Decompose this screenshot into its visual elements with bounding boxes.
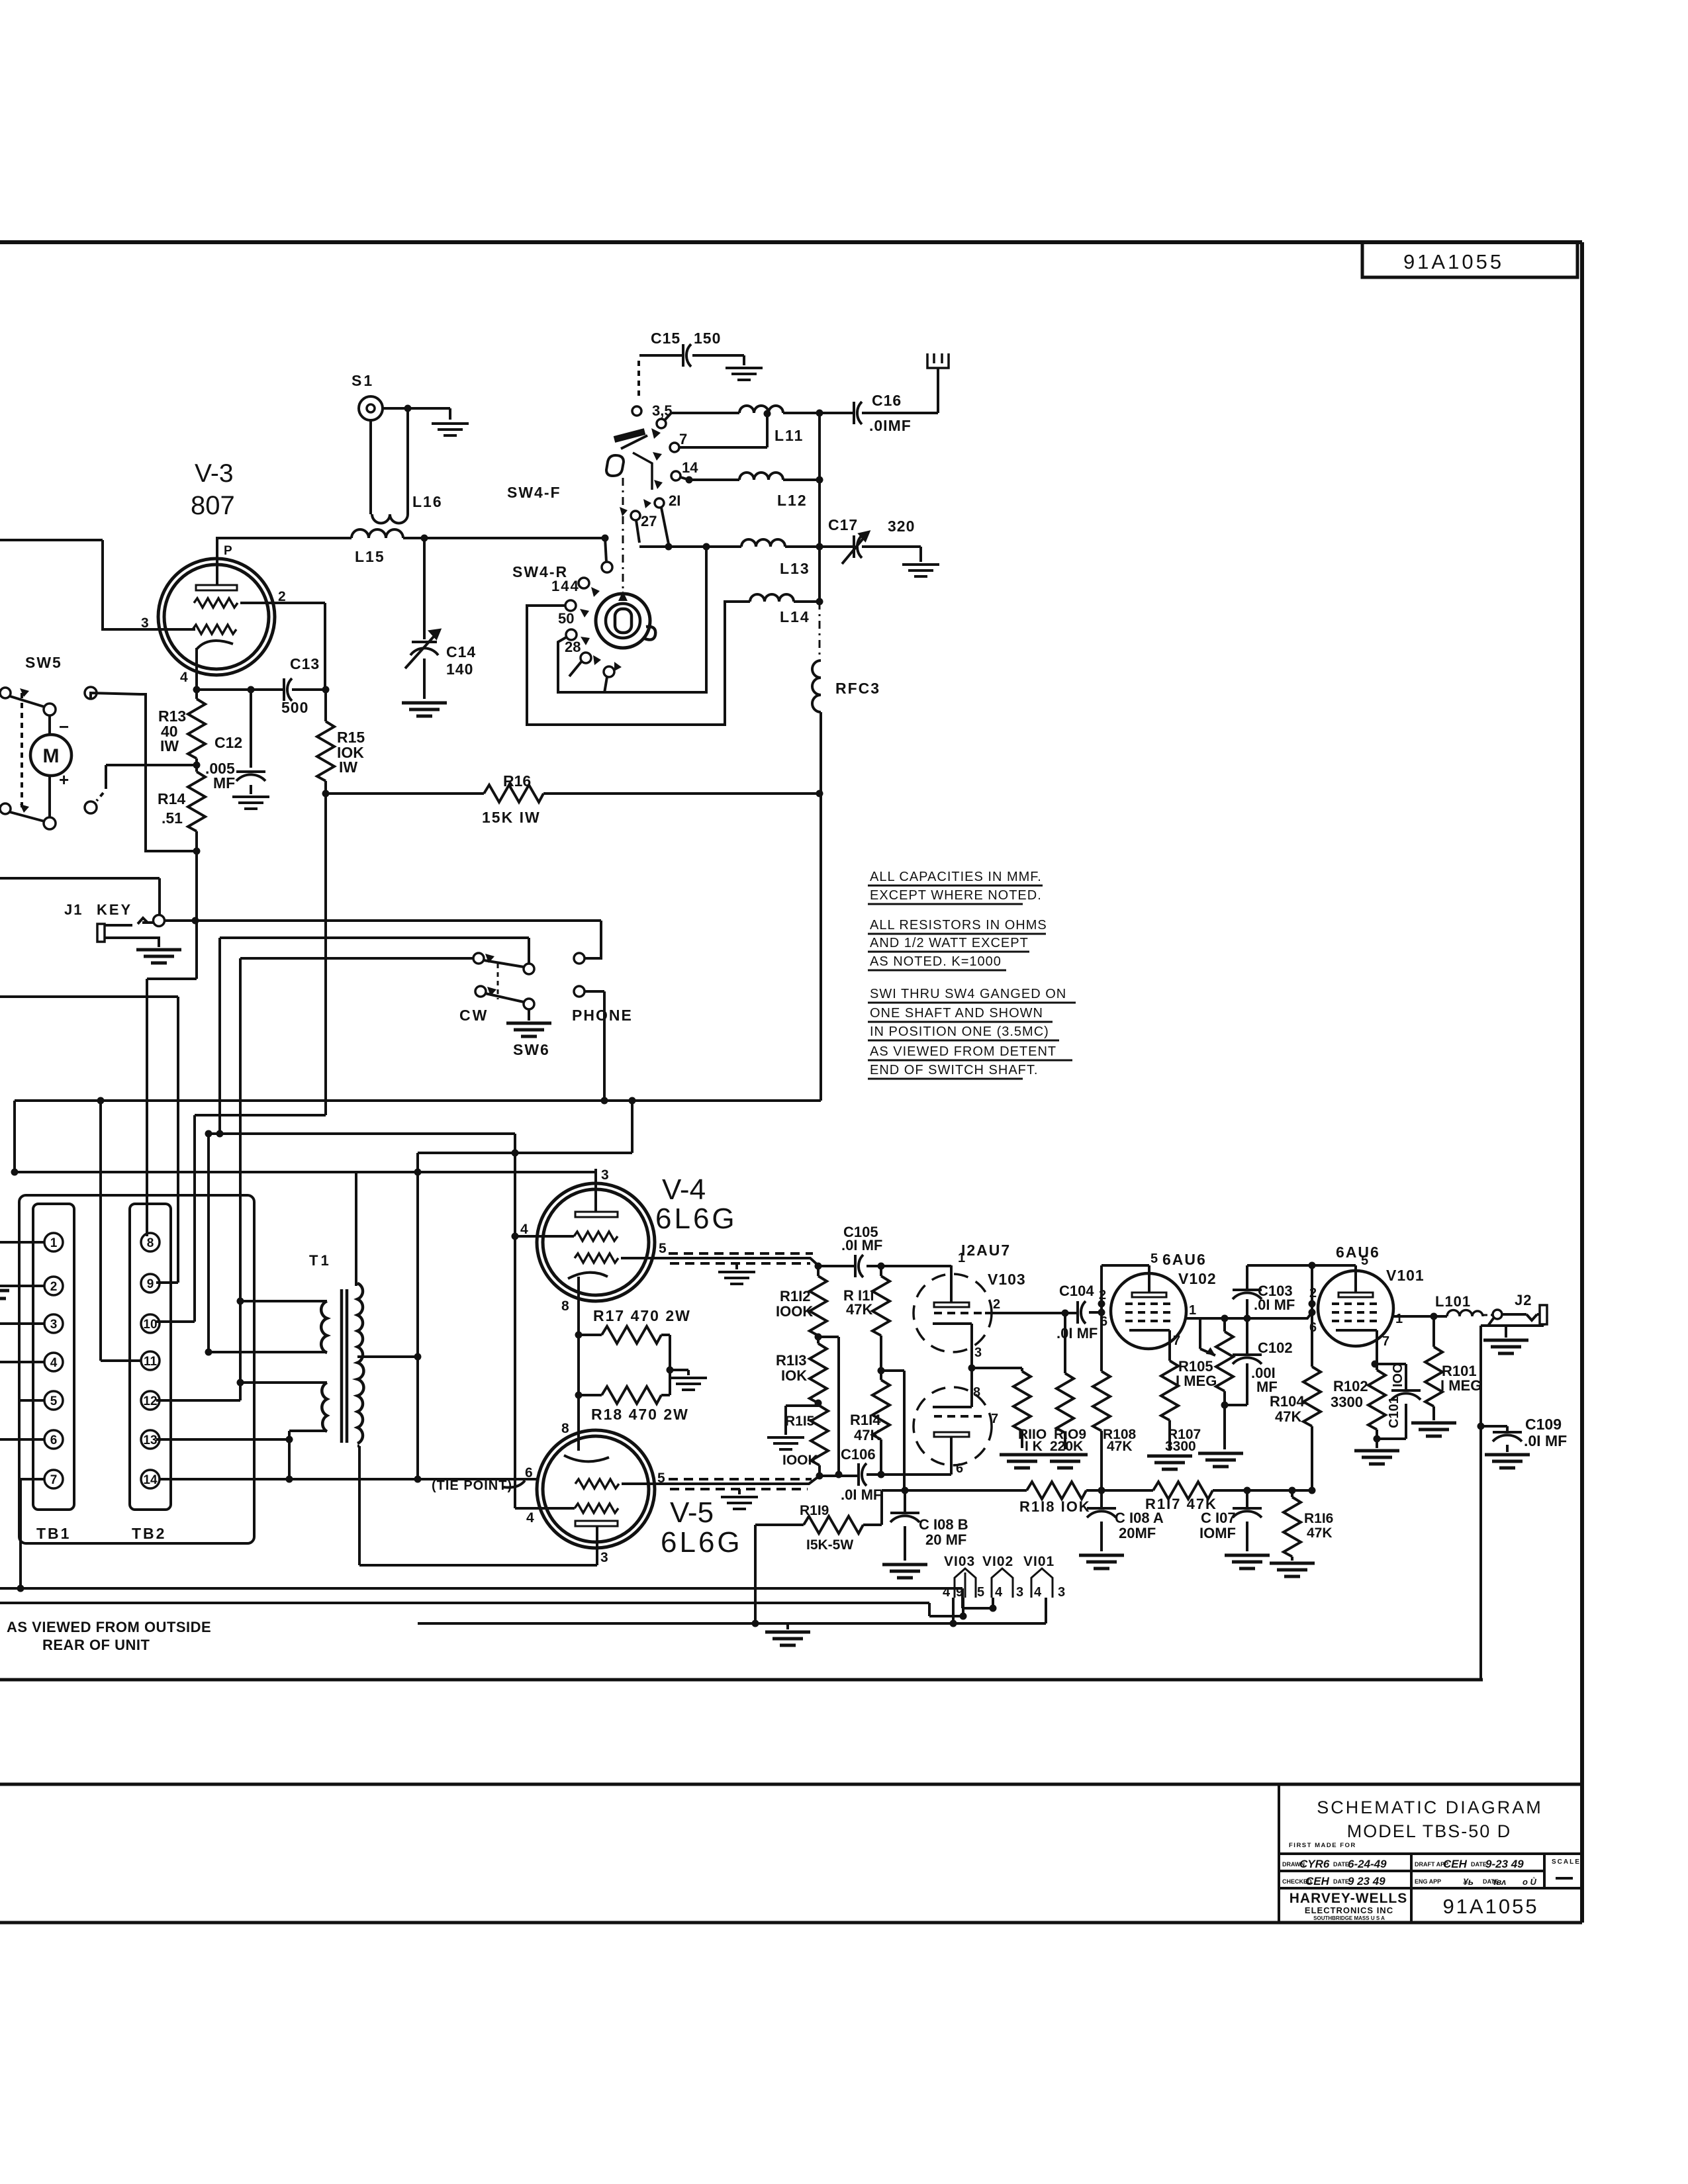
svg-text:.0I MF: .0I MF (1056, 1325, 1098, 1342)
svg-text:IOOK: IOOK (776, 1303, 813, 1320)
svg-text:.0IMF: .0IMF (869, 417, 912, 434)
svg-text:V-4: V-4 (662, 1173, 706, 1206)
svg-text:500: 500 (281, 699, 308, 716)
svg-text:2: 2 (993, 1297, 1000, 1312)
svg-text:CEH: CEH (1443, 1858, 1468, 1870)
svg-text:L11: L11 (774, 427, 804, 444)
svg-text:EXCEPT WHERE NOTED.: EXCEPT WHERE NOTED. (870, 888, 1042, 903)
svg-text:6L6G: 6L6G (655, 1203, 737, 1235)
svg-text:C14: C14 (446, 643, 476, 660)
svg-text:7: 7 (679, 431, 687, 447)
svg-text:KEY: KEY (97, 901, 132, 918)
svg-text:¥ь: ¥ь (1463, 1876, 1474, 1887)
svg-text:3: 3 (600, 1550, 608, 1565)
svg-text:R1I8 IOK: R1I8 IOK (1019, 1498, 1091, 1515)
svg-text:VI01: VI01 (1023, 1554, 1055, 1569)
svg-text:−: − (59, 717, 69, 737)
svg-text:C13: C13 (290, 655, 320, 672)
svg-text:ENG APP: ENG APP (1415, 1878, 1441, 1885)
svg-text:5: 5 (977, 1585, 984, 1600)
svg-text:11: 11 (144, 1355, 158, 1369)
svg-text:4: 4 (520, 1222, 528, 1237)
svg-text:L15: L15 (355, 548, 385, 565)
svg-text:R17 470 2W: R17 470 2W (593, 1307, 691, 1324)
svg-text:FIRST MADE FOR: FIRST MADE FOR (1289, 1842, 1356, 1849)
svg-text:SCALE: SCALE (1552, 1858, 1581, 1866)
svg-text:4: 4 (995, 1585, 1003, 1600)
svg-text:C102: C102 (1258, 1340, 1293, 1356)
svg-text:4: 4 (943, 1585, 951, 1600)
svg-text:ELECTRONICS INC: ELECTRONICS INC (1305, 1905, 1393, 1915)
svg-text:M: M (43, 745, 60, 767)
svg-text:7: 7 (1382, 1334, 1389, 1349)
svg-text:5: 5 (1150, 1251, 1158, 1266)
svg-text:L13: L13 (780, 560, 810, 577)
svg-text:7: 7 (50, 1473, 58, 1487)
svg-text:9: 9 (147, 1277, 154, 1291)
svg-text:C I08 B: C I08 B (919, 1516, 968, 1533)
svg-text:6AU6: 6AU6 (1336, 1244, 1380, 1261)
svg-text:1: 1 (1189, 1303, 1196, 1318)
svg-text:IW: IW (339, 758, 357, 776)
svg-text:1: 1 (958, 1251, 965, 1265)
svg-text:4: 4 (526, 1510, 534, 1525)
svg-text:L101: L101 (1435, 1293, 1471, 1310)
svg-text:IOMF: IOMF (1199, 1525, 1236, 1541)
svg-text:27: 27 (641, 513, 657, 529)
svg-text:4: 4 (180, 670, 188, 685)
svg-text:3: 3 (141, 615, 149, 631)
svg-text:AS VIEWED FROM DETENT: AS VIEWED FROM DETENT (870, 1044, 1056, 1059)
svg-text:150: 150 (694, 330, 721, 347)
svg-text:.0I MF: .0I MF (1524, 1432, 1567, 1449)
svg-text:IOO: IOO (1391, 1363, 1405, 1387)
svg-text:7: 7 (1173, 1334, 1180, 1348)
svg-text:47K: 47K (1307, 1525, 1333, 1541)
svg-text:R1I4: R1I4 (850, 1412, 881, 1428)
svg-text:3,5: 3,5 (652, 402, 673, 419)
svg-text:MF: MF (213, 774, 235, 792)
svg-text:6L6G: 6L6G (661, 1526, 743, 1559)
svg-text:5: 5 (659, 1241, 667, 1256)
svg-text:S1: S1 (352, 372, 374, 389)
svg-text:47K: 47K (846, 1301, 872, 1318)
svg-text:12: 12 (143, 1394, 157, 1408)
svg-text:9-23 49: 9-23 49 (1485, 1858, 1524, 1870)
svg-text:3: 3 (1058, 1585, 1065, 1600)
svg-text:6-24-49: 6-24-49 (1348, 1858, 1387, 1870)
svg-text:R14: R14 (158, 790, 185, 807)
svg-text:3: 3 (601, 1167, 609, 1183)
svg-text:4: 4 (1034, 1585, 1042, 1600)
svg-text:3: 3 (1016, 1585, 1023, 1600)
svg-text:IN POSITION ONE (3.5MC): IN POSITION ONE (3.5MC) (870, 1024, 1049, 1039)
svg-text:DATE: DATE (1471, 1861, 1487, 1868)
svg-text:20 MF: 20 MF (925, 1531, 966, 1548)
svg-text:2: 2 (278, 589, 286, 604)
svg-text:20MF: 20MF (1119, 1525, 1156, 1541)
svg-text:R104: R104 (1270, 1393, 1305, 1410)
svg-text:5: 5 (1361, 1253, 1368, 1268)
svg-text:L16: L16 (412, 493, 443, 510)
svg-text:2I: 2I (669, 492, 680, 509)
svg-text:140: 140 (446, 660, 473, 678)
svg-text:6: 6 (1309, 1320, 1317, 1335)
svg-text:3300: 3300 (1331, 1394, 1363, 1410)
svg-text:+: + (59, 770, 69, 790)
svg-text:I K: I K (1025, 1439, 1043, 1454)
svg-text:.0I MF: .0I MF (1254, 1297, 1295, 1313)
svg-text:L12: L12 (777, 492, 808, 509)
svg-text:P: P (224, 544, 232, 558)
svg-text:AS NOTED. K=1000: AS NOTED. K=1000 (870, 954, 1002, 969)
svg-text:6: 6 (525, 1465, 533, 1480)
svg-text:3: 3 (974, 1345, 982, 1360)
svg-text:о Ǜ: о Ǜ (1523, 1877, 1537, 1887)
svg-text:9 23 49: 9 23 49 (1348, 1875, 1385, 1888)
svg-text:3300: 3300 (1165, 1439, 1196, 1454)
svg-text:J1: J1 (64, 901, 83, 918)
svg-text:47K: 47K (1275, 1408, 1301, 1425)
svg-text:6: 6 (1100, 1314, 1107, 1329)
svg-text:50: 50 (558, 610, 574, 627)
svg-text:CEH: CEH (1305, 1875, 1330, 1888)
svg-text:ONE SHAFT AND SHOWN: ONE SHAFT AND SHOWN (870, 1006, 1043, 1021)
svg-text:C101: C101 (1387, 1396, 1401, 1428)
svg-text:14: 14 (682, 459, 698, 476)
svg-text:(TIE POINT): (TIE POINT) (432, 1479, 512, 1493)
svg-text:PHONE: PHONE (572, 1007, 633, 1024)
svg-text:9: 9 (956, 1585, 963, 1600)
svg-text:V102: V102 (1178, 1270, 1217, 1287)
svg-text:4: 4 (50, 1356, 58, 1370)
svg-text:END OF SWITCH SHAFT.: END OF SWITCH SHAFT. (870, 1063, 1038, 1077)
svg-text:CW: CW (459, 1007, 489, 1024)
svg-text:SWI THRU SW4 GANGED ON: SWI THRU SW4 GANGED ON (870, 987, 1066, 1001)
svg-text:C I08 A: C I08 A (1115, 1510, 1164, 1526)
svg-text:2: 2 (1309, 1286, 1317, 1300)
svg-text:R1I9: R1I9 (800, 1503, 829, 1518)
svg-text:C109: C109 (1525, 1416, 1562, 1433)
svg-text:DATE: DATE (1333, 1861, 1349, 1868)
svg-text:807: 807 (191, 491, 235, 520)
svg-text:47K: 47K (854, 1427, 880, 1443)
svg-text:320: 320 (888, 518, 915, 535)
svg-text:.51: .51 (162, 809, 183, 827)
svg-text:ALL RESISTORS IN OHMS: ALL RESISTORS IN OHMS (870, 918, 1047, 933)
svg-text:1: 1 (1395, 1312, 1403, 1326)
svg-text:144: 144 (551, 578, 580, 594)
svg-text:10: 10 (143, 1318, 157, 1332)
svg-text:‌τвʌ: ‌τвʌ (1493, 1877, 1506, 1887)
svg-text:SCHEMATIC DIAGRAM: SCHEMATIC DIAGRAM (1317, 1797, 1543, 1817)
svg-text:VI02: VI02 (982, 1554, 1013, 1569)
svg-text:HARVEY-WELLS: HARVEY-WELLS (1289, 1891, 1407, 1906)
svg-text:ALL CAPACITIES IN MMF.: ALL CAPACITIES IN MMF. (870, 870, 1042, 884)
svg-text:V-3: V-3 (195, 459, 234, 488)
svg-text:C15: C15 (651, 330, 680, 347)
svg-text:8: 8 (561, 1298, 569, 1314)
svg-text:8: 8 (973, 1385, 980, 1400)
svg-text:7: 7 (991, 1412, 998, 1426)
svg-text:R1I2: R1I2 (780, 1288, 810, 1304)
svg-text:IW: IW (160, 737, 179, 754)
svg-text:13: 13 (143, 1433, 157, 1447)
svg-text:220K: 220K (1050, 1439, 1083, 1454)
svg-text:DATE: DATE (1333, 1878, 1349, 1885)
svg-text:1: 1 (50, 1236, 58, 1250)
svg-text:REAR OF UNIT: REAR OF UNIT (42, 1637, 150, 1653)
svg-text:I MEG: I MEG (1176, 1373, 1217, 1389)
svg-text:91A1055: 91A1055 (1403, 250, 1504, 273)
svg-text:2: 2 (50, 1280, 58, 1294)
svg-text:L14: L14 (780, 608, 810, 625)
svg-text:8: 8 (561, 1421, 569, 1436)
svg-text:R1I6: R1I6 (1304, 1511, 1333, 1526)
svg-text:2: 2 (1099, 1288, 1106, 1302)
svg-text:AND 1/2 WATT EXCEPT: AND 1/2 WATT EXCEPT (870, 936, 1029, 950)
svg-text:6: 6 (50, 1433, 58, 1447)
svg-text:C I07: C I07 (1201, 1510, 1236, 1526)
svg-text:47K: 47K (1107, 1439, 1133, 1454)
svg-text:14: 14 (143, 1473, 158, 1487)
svg-text:3: 3 (50, 1318, 58, 1332)
svg-text:R102: R102 (1333, 1378, 1368, 1394)
svg-text:SOUTHBRIDGE MASS U S A: SOUTHBRIDGE MASS U S A (1313, 1915, 1385, 1921)
svg-text:R1I5: R1I5 (785, 1414, 815, 1429)
svg-text:28: 28 (565, 639, 581, 655)
svg-text:5: 5 (50, 1394, 58, 1408)
svg-text:SW6: SW6 (513, 1041, 550, 1058)
svg-text:TB1: TB1 (36, 1525, 71, 1542)
svg-text:5: 5 (657, 1471, 665, 1486)
svg-text:C104: C104 (1059, 1283, 1094, 1299)
svg-text:R18 470 2W: R18 470 2W (591, 1406, 689, 1423)
svg-text:C106: C106 (841, 1446, 876, 1463)
svg-text:I MEG: I MEG (1440, 1377, 1481, 1394)
svg-text:C16: C16 (872, 392, 902, 409)
svg-text:IOK: IOK (781, 1367, 807, 1384)
svg-text:VI03: VI03 (944, 1554, 975, 1569)
svg-text:6AU6: 6AU6 (1162, 1251, 1207, 1268)
svg-text:RFC3: RFC3 (835, 680, 880, 697)
svg-text:AS VIEWED FROM OUTSIDE: AS VIEWED FROM OUTSIDE (7, 1619, 211, 1635)
svg-text:I5K-5W: I5K-5W (806, 1537, 853, 1553)
svg-text:91A1055: 91A1055 (1442, 1895, 1538, 1918)
svg-text:CYR6: CYR6 (1299, 1858, 1330, 1870)
svg-text:15K IW: 15K IW (482, 809, 541, 826)
svg-text:SW5: SW5 (25, 654, 62, 671)
svg-text:8: 8 (147, 1236, 154, 1250)
svg-text:.0I MF: .0I MF (841, 1237, 882, 1253)
svg-text:C17: C17 (828, 516, 858, 533)
svg-text:J2: J2 (1515, 1292, 1532, 1308)
svg-text:T1: T1 (309, 1252, 332, 1269)
svg-text:TB2: TB2 (132, 1525, 166, 1542)
svg-text:6: 6 (956, 1461, 963, 1476)
svg-text:IOOK: IOOK (782, 1453, 818, 1468)
svg-text:C12: C12 (214, 734, 242, 751)
svg-text:V103: V103 (988, 1271, 1026, 1288)
svg-text:R1I3: R1I3 (776, 1352, 806, 1369)
svg-text:SW4-F: SW4-F (507, 484, 561, 501)
svg-text:V-5: V-5 (670, 1496, 714, 1529)
svg-text:V101: V101 (1386, 1267, 1425, 1284)
svg-text:I2AU7: I2AU7 (961, 1242, 1011, 1259)
svg-text:MODEL TBS-50 D: MODEL TBS-50 D (1347, 1821, 1512, 1841)
svg-text:.0I MF: .0I MF (841, 1486, 882, 1503)
